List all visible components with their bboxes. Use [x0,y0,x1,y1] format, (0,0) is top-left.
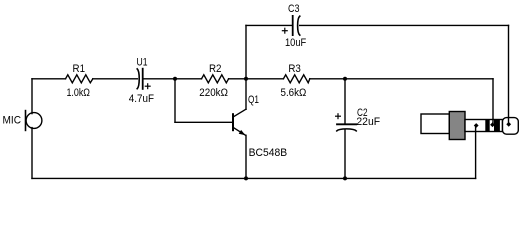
resistor R2 [202,75,229,83]
svg-text:U1: U1 [137,57,148,69]
jack J1 tip [503,118,519,135]
resistor R1 [66,75,93,83]
jack J1 sleeve contact dot [474,123,479,128]
svg-text:220kΩ: 220kΩ [199,87,228,99]
capacitor C2 straight plate [337,123,356,125]
wire: R2 to R3 through node [229,78,284,80]
wire: sleeve stub inside shaft [475,126,477,133]
svg-text:10uF: 10uF [285,37,307,49]
jack J1 cable body [421,114,449,134]
wire: ring stub inside gap [492,119,494,125]
capacitor U1 curved plate [137,69,139,89]
jack J1 insulator band 2 [494,119,500,132]
capacitor U1 straight plate [142,69,144,89]
jack J1 ring contact dot [490,122,495,127]
wire: R1 to U1 left plate [93,78,138,80]
jack J1 tip contact dot [506,122,511,127]
capacitor C3 curved plate [298,16,300,35]
wire: R3 to ring drop corner [310,78,493,80]
svg-text:MIC: MIC [3,115,22,127]
svg-text:5.6kΩ: 5.6kΩ [281,87,307,99]
svg-text:Q1: Q1 [248,94,259,106]
wire: U1 right plate to R2 [143,78,201,80]
wire: mic top riser [31,79,33,114]
jack J1 gray boot [449,112,465,140]
wire: base drop from U1-R2 node [174,79,176,123]
junction node R2-R3-collector-C3 [244,77,248,81]
capacitor C2 curved plate [337,129,356,131]
transistor Q1 base bar [232,114,234,130]
transistor Q1 emitter [234,128,246,136]
wire: ground riser to sleeve contact [475,126,477,178]
junction node R3-C2-output [343,77,347,81]
junction node U1-R2-base [173,77,177,81]
svg-text:BC548B: BC548B [249,147,288,159]
junction node C2-ground [343,176,347,180]
svg-text:1.0kΩ: 1.0kΩ [66,87,90,99]
microphone MIC bar [25,111,27,131]
wire: tip stub inside tip [508,117,510,124]
svg-text:C3: C3 [288,3,300,15]
svg-text:22uF: 22uF [356,116,380,128]
resistor R3 [283,75,309,83]
wire: mic bottom drop [31,128,33,179]
capacitor C3 straight plate [292,16,294,35]
wire: top rail left of C3 [246,24,292,26]
transistor Q1 emitter arrowhead [239,130,246,135]
capacitor U1 plus sign [145,84,150,89]
wire: base horizontal to Q1 [175,121,233,123]
microphone MIC circle [26,113,42,129]
capacitor C3 plus sign [282,28,287,33]
svg-text:R1: R1 [73,63,86,75]
svg-text:R3: R3 [288,63,301,75]
transistor Q1 collector [234,109,246,116]
wire: C2 bottom stub [344,130,346,179]
junction node emitter-ground [244,176,248,180]
jack J1 insulator band 1 [485,119,489,132]
svg-text:4.7uF: 4.7uF [129,93,154,105]
wire: node riser to top rail [245,25,247,78]
svg-text:R2: R2 [209,63,222,75]
wire: C2 top stub [344,79,346,124]
capacitor C2 plus sign [336,114,341,119]
jack J1 sleeve shaft [465,120,503,132]
wire: bottom ground rail [32,177,476,179]
wire: top rail drop to tip contact [508,25,510,123]
wire: top rail right of C3 [300,24,509,26]
wire: main rail mic corner to R1 [32,78,66,80]
wire: output drop to ring contact [492,79,494,124]
